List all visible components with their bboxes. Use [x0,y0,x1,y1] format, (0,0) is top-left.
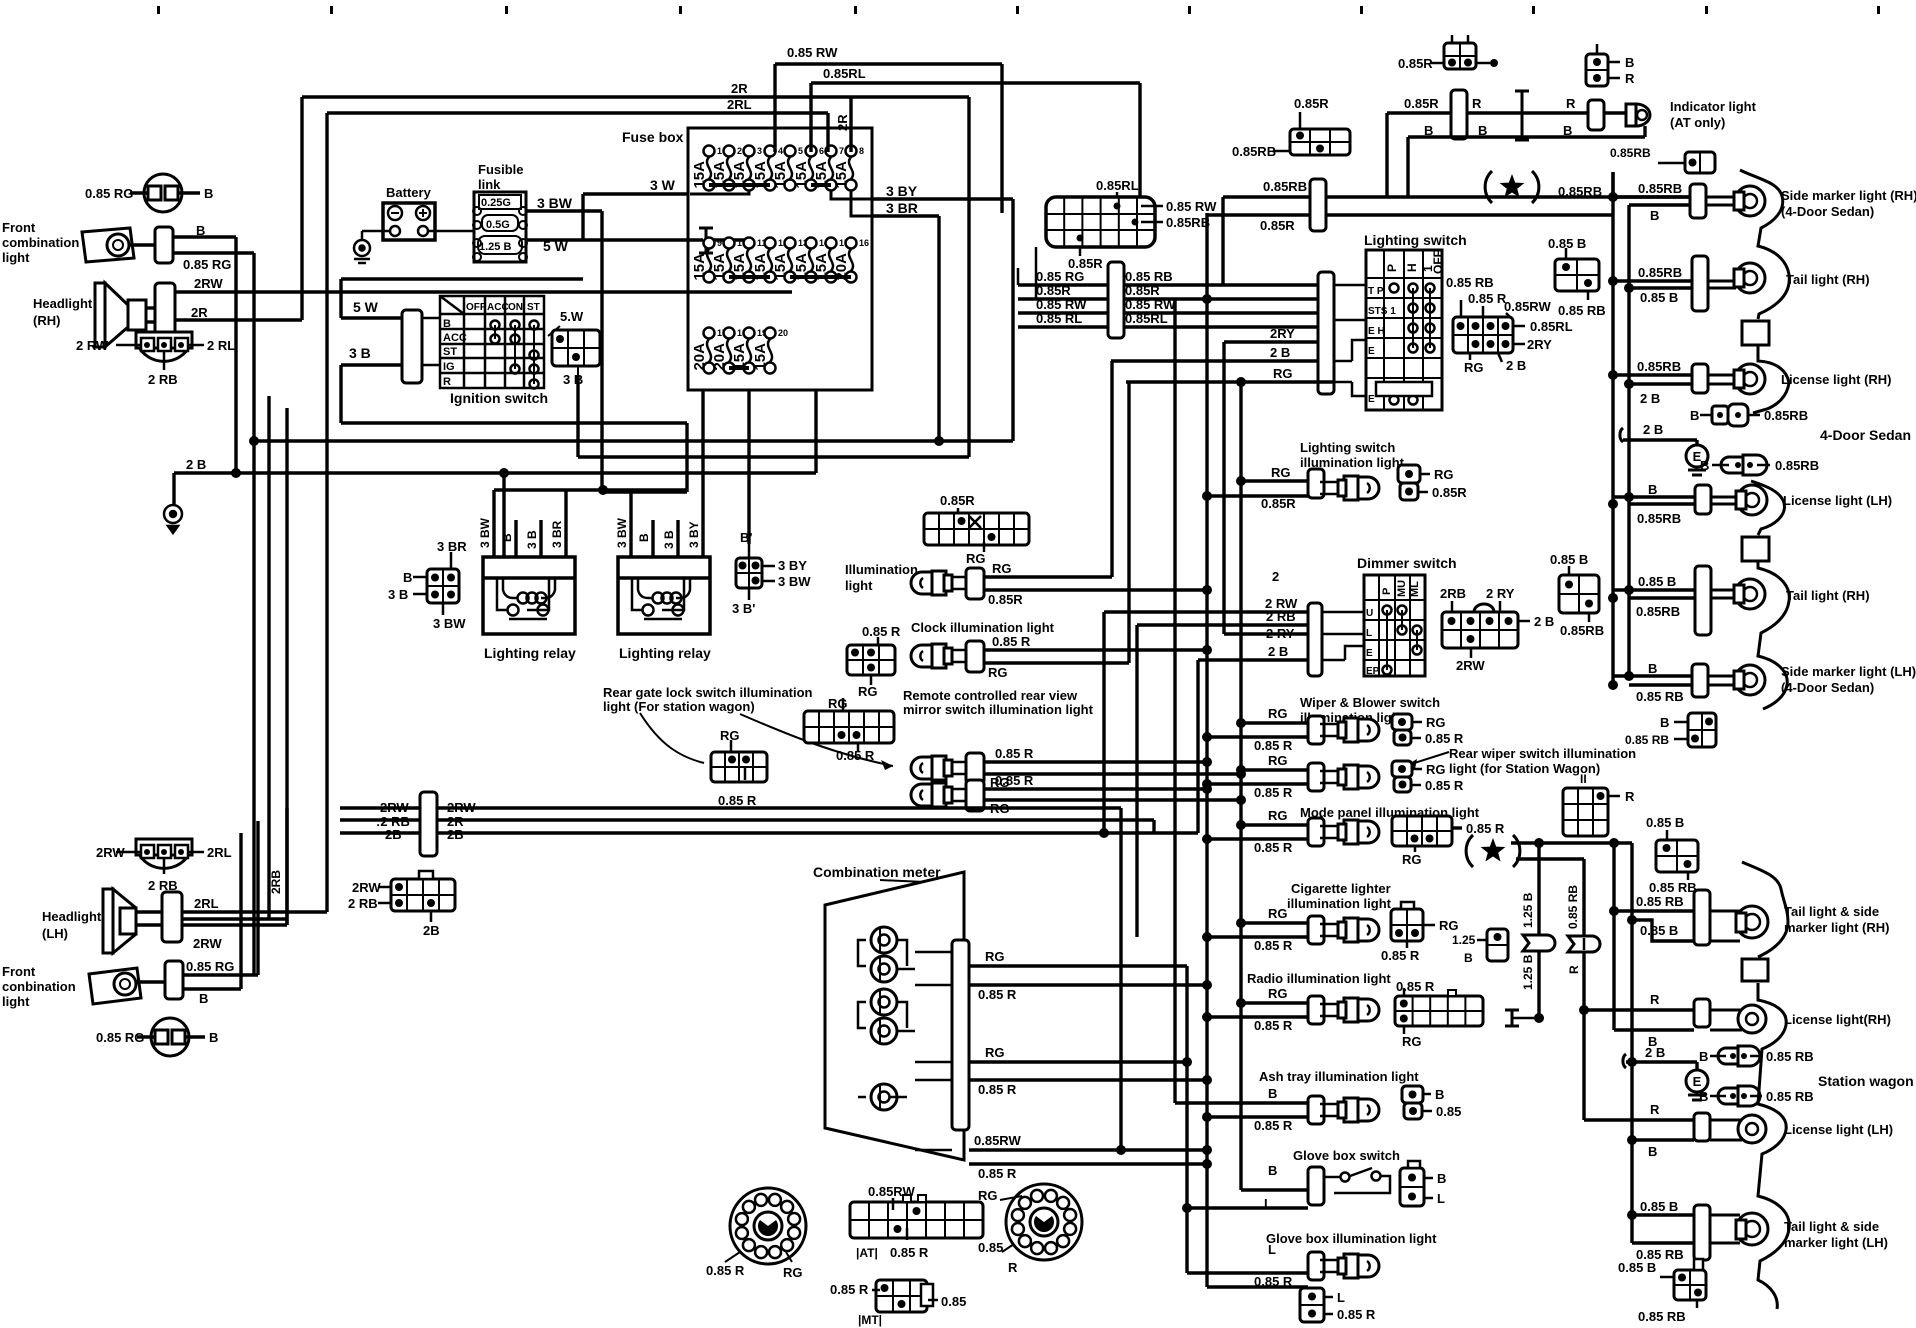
connector rear gate [711,752,767,782]
lighting relay 1 top band [483,576,575,580]
meter bulb 2 [871,956,897,982]
lic LH connector [1694,1113,1710,1141]
svg-text:2RY: 2RY [1527,337,1552,352]
connector pair wagon2 [1718,1086,1760,1106]
svg-text:RG: RG [1268,753,1288,768]
relay2 pin wire [629,490,632,557]
cig stub b [1406,941,1409,948]
junction 085RW meter [1116,1145,1126,1155]
connector 2RW 2RB 8cell [391,879,455,911]
wire 2RW riser LH [285,808,288,925]
svg-text:Clock illumination light: Clock illumination light [911,620,1055,635]
pin [1735,412,1741,418]
license light RH wire b [1629,382,1692,385]
svg-text:3 BY: 3 BY [687,521,701,548]
pin top [1596,44,1599,54]
side marker light LH bulb [1708,665,1765,695]
svg-text:3 BW: 3 BW [433,616,466,631]
svg-text:20A: 20A [711,343,728,371]
bus B branch [1185,966,1188,1273]
license light RH wire a [1613,373,1692,376]
pin [1747,462,1753,468]
mirror conn pin [842,698,845,711]
ignition contact [530,365,539,374]
front combination light LH body [89,968,141,1004]
wire RG ls [1126,380,1334,383]
fusible terminal [519,207,527,215]
svg-text:0.85RB: 0.85RB [1638,181,1682,196]
wire front comb feed [254,439,1013,442]
bus clock riser [1127,382,1130,663]
relay1 pin wire [539,520,542,557]
glove box switch symbol [1324,1168,1390,1193]
indicator connector 1 [1451,90,1467,139]
wire B indicator riser [1643,126,1646,137]
svg-text:3 B': 3 B' [732,601,755,616]
tick mark 10 [1705,6,1708,14]
svg-text:0.85R: 0.85R [1432,485,1467,500]
svg-text:B: B [1690,408,1699,423]
svg-text:0.85 R: 0.85 R [836,748,875,763]
rear gate arrow2 [640,713,704,763]
svg-text:0.85 R: 0.85 R [862,624,901,639]
mirror conn pin2 [857,743,860,752]
tick mark 11 [1877,6,1880,14]
svg-text:0.85RB: 0.85RB [1263,179,1307,194]
svg-text:R: R [1566,96,1576,111]
svg-text:0.85 R: 0.85 R [978,1082,1017,1097]
svg-text:B: B [1648,1144,1657,1159]
svg-text:2 RY: 2 RY [1486,586,1515,601]
inline connector 125B [1523,935,1555,951]
junction illum [1202,585,1212,595]
wire 2B wagon drop [1695,1062,1698,1070]
svg-text:3 B: 3 B [388,587,408,602]
svg-text:2RY: 2RY [1270,326,1295,341]
svg-text:Lighting relay: Lighting relay [484,645,576,661]
wire 085R rearwiper [1207,782,1308,785]
wiper blower illumination light pigtail stub l [1411,737,1421,740]
svg-text:RG: RG [1271,465,1291,480]
svg-text:0.85 R: 0.85 R [1396,979,1435,994]
tick mark 2 [330,6,333,14]
svg-text:RG: RG [1464,360,1484,375]
svg-text:0.5G: 0.5G [486,219,510,231]
pin stub [116,344,140,347]
ash tray illumination light bulb [1320,1098,1379,1122]
svg-text:2RL: 2RL [194,896,219,911]
svg-text:15A: 15A [772,161,789,189]
ls contact [1409,344,1418,353]
rear wiper illumination light pigtail conn l [1394,777,1411,792]
svg-text:0.85 R: 0.85 R [978,1166,1017,1181]
license light LH wire b [1629,502,1695,505]
svg-text:RG: RG [1268,808,1288,823]
battery lower term 1 [390,226,400,236]
bundle connector mid [1108,262,1124,338]
wire 2B wagon [1626,1060,1697,1063]
svg-text:9: 9 [717,238,722,248]
bus right b2a [1630,843,1633,1243]
front comb LH riser B [239,833,242,989]
svg-text:RG: RG [783,1265,803,1280]
connector tab [419,871,433,879]
lic RH bulb [1710,1005,1766,1033]
svg-text:Lighting switch: Lighting switch [1300,440,1395,455]
ds bar to table [1322,611,1364,614]
svg-text:Headlight: Headlight [33,296,93,311]
svg-text:light (For station wagon): light (For station wagon) [603,699,755,714]
svg-text:0.85 RB: 0.85 RB [1766,1089,1814,1104]
junction [1202,732,1212,742]
svg-text:0.85: 0.85 [1436,1104,1461,1119]
svg-text:Ignition switch: Ignition switch [450,390,548,406]
license light LH connector [1695,485,1711,514]
license light LH wire a [1613,495,1695,498]
ignition contact [491,321,500,330]
svg-text:B: B [1660,715,1669,730]
svg-text:3 BW: 3 BW [478,517,492,548]
pin R [1608,77,1620,80]
connector pair wagon1 [1718,1046,1760,1066]
lighting switch table [1366,250,1442,410]
junction [1236,795,1246,805]
AT connector [850,1202,983,1238]
pin [1114,203,1121,210]
radio illumination light connector [1308,996,1324,1024]
pin 2RW [1470,648,1473,658]
svg-text:Fuse box: Fuse box [622,129,684,145]
fusible link 0.25G cell [479,195,521,209]
svg-text:0.85RB: 0.85RB [1232,144,1276,159]
tick mark 9 [1532,6,1535,14]
lighting relay 2 coil loops [653,593,682,604]
svg-text:0.85 RB: 0.85 RB [1636,894,1684,909]
bus 2R bundle jog [1152,820,1155,833]
conn pin top2 [1467,35,1470,43]
svg-text:RG: RG [1273,366,1293,381]
svg-text:License light (LH): License light (LH) [1783,493,1892,508]
pin top [1299,112,1302,129]
wire 3BW [526,209,602,212]
junction [1202,834,1212,844]
svg-text:Cigarette lighter: Cigarette lighter [1291,881,1391,896]
fuse 16 [833,238,869,283]
junction tbar [1534,1013,1544,1023]
battery minus terminal [388,206,402,220]
svg-text:0.85 RG: 0.85 RG [186,959,234,974]
fuse3 input link [690,190,749,194]
tailsm RH connector [1694,890,1710,945]
pin stub 3BR [450,552,453,569]
svg-text:15A: 15A [691,253,708,281]
pin stub [116,851,140,854]
svg-text:3 BY: 3 BY [778,558,807,573]
wire R indicator [1387,111,1626,114]
stub [1696,1300,1699,1308]
wire 085RW meter [969,1148,1207,1151]
wire 2RL drop left [325,113,328,912]
cig pigtail conn [1391,909,1423,941]
fuse bus row1 [709,183,770,187]
big connector grid [1046,197,1155,247]
tail light LH bulb [1711,579,1765,609]
bus 2RW bundle drop [1119,808,1122,1150]
headlight RH leads [146,306,155,309]
pin stub 3BY [762,565,775,568]
svg-text:15A: 15A [772,253,789,281]
glove box illumination light connector [1308,1252,1324,1280]
svg-text:|AT|: |AT| [856,1246,878,1260]
junction [1624,283,1634,293]
inline connector R [1568,936,1600,952]
pin stub wagtop b [1687,872,1690,880]
svg-text:16: 16 [859,238,869,248]
svg-text:Side marker light (LH): Side marker light (LH) [1781,664,1916,679]
svg-text:2R: 2R [191,305,208,320]
svg-text:B': B' [740,530,752,545]
wire 0.85R right [1207,213,1613,216]
svg-text:2RB: 2RB [269,870,283,894]
svg-text:4: 4 [778,146,783,156]
gbs conn tab [1408,1161,1420,1168]
star crossing 2 [1466,835,1520,867]
relay1 pin wire [564,490,567,557]
wire mid headlight LH [182,917,287,920]
svg-text:T P: T P [1368,286,1384,297]
bus 0.85RB main [1221,197,1224,285]
indicator bulb [1626,104,1650,126]
svg-text:Tail light (RH): Tail light (RH) [1786,272,1870,287]
svg-text:marker light (LH): marker light (LH) [1784,1235,1888,1250]
combination meter outline [825,872,964,1160]
fuse 8 [833,146,864,191]
wire 2B dimmer [1198,658,1308,661]
stub [1748,414,1760,417]
svg-text:0.85R: 0.85R [1404,96,1439,111]
headlight LH leads2 [136,923,162,926]
tail light RH wire b [1629,286,1692,289]
wire 2RW headlight LH [182,923,287,926]
wire bundle 0.85R [1018,297,1318,300]
stub [1674,738,1688,741]
wire 0.85RL top [811,81,1140,84]
svg-text:0.85 B: 0.85 B [1646,815,1684,830]
svg-text:0.85 RG: 0.85 RG [183,257,231,272]
wire 3BY drop [1011,199,1014,441]
svg-text:B: B [209,1030,218,1045]
svg-text:2 RB: 2 RB [148,372,178,387]
junction [1627,1210,1637,1220]
pin stub 3Bp [748,588,751,600]
svg-text:0.85R: 0.85R [1125,283,1160,298]
pin [1460,300,1463,317]
connector 085B RB b [1559,575,1599,613]
indicator connector 2 [1588,100,1604,130]
wire 0.85R rg [984,787,1207,790]
wire RG clock [984,661,1129,664]
headlight RH leads2 [146,320,155,323]
rear gate bulb connector [966,780,984,811]
pin stub B [413,576,427,579]
battery plus terminal [416,206,430,220]
svg-text:15A: 15A [793,161,810,189]
svg-text:B: B [1700,458,1709,473]
wire 3B run [341,421,687,424]
svg-text:light: light [845,578,873,593]
wire R drop [1582,859,1585,1120]
junction [1202,1012,1212,1022]
wire top conn riser [1611,172,1614,197]
pin [144,849,150,855]
pin [1741,1093,1747,1099]
rear wiper illumination light bulb [1320,765,1379,789]
meter stub 4 [915,1079,952,1082]
svg-text:2 B: 2 B [1270,345,1290,360]
svg-text:0.85RL: 0.85RL [1125,311,1168,326]
pin [1116,192,1119,208]
rear gate pin2 [744,767,747,780]
wire 2B ground run [174,471,816,474]
junction [1236,918,1246,928]
svg-text:2RW: 2RW [194,276,223,291]
ls contact [1409,324,1418,333]
svg-text:R: R [1472,96,1482,111]
lighting relay 1 contact R [538,605,549,616]
glove box switch connector [1308,1167,1324,1205]
svg-text:5 W: 5 W [353,299,379,315]
svg-text:0.85 R: 0.85 R [1381,948,1420,963]
junction [1608,593,1618,603]
junction [1202,1075,1212,1085]
svg-text:0.85 R: 0.85 R [1337,1307,1376,1322]
mirror connector [966,753,984,784]
pin line right of circle [178,191,200,194]
junction [1236,476,1246,486]
ls illumination bulb [1320,476,1379,500]
MT conn tab [921,1284,933,1306]
wire 085R meter3 [969,1162,1207,1165]
svg-text:RG: RG [828,696,848,711]
wire 0.85R illumination [984,588,1207,591]
mode panel illumination light connector [1308,818,1324,846]
svg-text:2RW: 2RW [447,800,476,815]
II grid stub [1608,795,1620,798]
svg-text:RG: RG [1439,918,1459,933]
svg-text:H: H [1405,263,1419,272]
svg-text:Lighting relay: Lighting relay [619,645,711,661]
front comb LH bulb inner [120,979,130,989]
mirror illumination bulb [911,756,970,780]
svg-text:5: 5 [798,146,803,156]
svg-text:0.85 R: 0.85 R [995,773,1034,788]
wire R lic RH [1584,1008,1694,1011]
front combination light RH bulb inner [113,240,123,250]
pin [161,342,167,348]
fuse 5 [772,146,803,191]
fusible terminal [473,221,481,229]
tail light LH wire b [1629,596,1695,599]
wiper blower illumination light bulb [1320,718,1379,742]
junction [1624,379,1634,389]
wire 085R radio [1207,1015,1308,1018]
svg-text:2B: 2B [423,923,440,938]
junction [1624,671,1634,681]
radio conn detail [1448,990,1456,996]
junction [1202,932,1212,942]
lic RH connector [1694,999,1710,1027]
relay2 pin wire [676,520,679,557]
meter bulb 3 [871,989,897,1015]
wire 2RY ls [1224,340,1318,343]
svg-text:B: B [1268,1163,1277,1178]
front comb RH lead [129,243,155,246]
wire RB tailsm RH [1614,909,1694,912]
junction [1627,915,1637,925]
svg-text:B: B [443,318,451,330]
svg-text:E: E [1366,648,1373,659]
svg-text:ACC: ACC [443,332,467,344]
pin stub Bp [748,544,751,558]
svg-text:Remote controlled rear view: Remote controlled rear view [903,688,1078,703]
svg-text:0.85 RL: 0.85 RL [1036,311,1082,326]
stub [1750,1095,1762,1098]
lighting relay 2 contact wires [632,578,684,610]
svg-text:License light (RH): License light (RH) [1781,372,1892,387]
pin [1132,219,1139,226]
wire bundle 0.85 RW [1018,311,1318,314]
svg-text:0.85 R: 0.85 R [1254,938,1293,953]
junction [1608,370,1618,380]
ls bar to table4 [1334,381,1352,384]
svg-text:B: B [199,991,208,1006]
wire RG lsil [1241,479,1308,482]
svg-text:L: L [1337,1290,1345,1305]
hook 2B wagon [1623,1054,1626,1068]
wire 5W into ignition [341,316,402,319]
wire 2RL drop to fuse [826,113,829,152]
lighting relay 2 contact R [673,605,684,616]
bus 0.85R main [1205,213,1208,1287]
svg-text:0.85 R: 0.85 R [995,746,1034,761]
stub [1420,473,1430,476]
connector top RB [1685,152,1715,173]
headlight RH reflector [95,283,146,347]
wire 5W loop drop [339,279,342,318]
connector bottom wagon [1674,1270,1706,1300]
AT conn tabs [903,1195,911,1202]
svg-text:mirror switch illumination lig: mirror switch illumination light [903,702,1094,717]
pin [1730,1093,1736,1099]
svg-text:3: 3 [757,146,762,156]
svg-text:0.85R: 0.85R [1261,496,1296,511]
wire 2B drop [1695,440,1698,445]
wire 2B ls [1111,359,1318,362]
battery to fusible link [428,230,475,233]
meter bulb wiring 1 [858,940,915,969]
svg-text:(AT only): (AT only) [1670,115,1725,130]
wiper blower illumination light pigtail conn u [1392,714,1412,730]
svg-text:0.85 RB: 0.85 RB [1558,303,1606,318]
bus 2B dimmer riser [1196,660,1199,833]
svg-text:Tail light (RH): Tail light (RH) [1786,588,1870,603]
connector 4pin relay2 [736,558,762,588]
svg-text:2B: 2B [385,827,402,842]
fuse bus row3 [729,366,749,370]
svg-text:0.85 RG: 0.85 RG [96,1030,144,1045]
bus RB right [1611,172,1614,685]
lighting relay 1 coil loops [518,593,547,604]
